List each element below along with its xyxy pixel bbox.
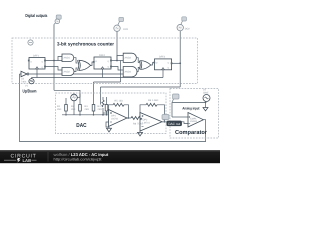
svg-text:DFF1: DFF1 — [33, 55, 40, 58]
svg-text:Comparator: Comparator — [175, 129, 208, 136]
svg-text:1.5kΩ: 1.5kΩ — [152, 99, 159, 102]
svg-text:2kΩ: 2kΩ — [57, 108, 62, 111]
svg-text:wolfson / L23 ADC - AC input: wolfson / L23 ADC - AC input — [54, 152, 109, 157]
svg-text:AND4: AND4 — [125, 71, 132, 74]
svg-text:3-bit synchronous counter: 3-bit synchronous counter — [57, 41, 114, 47]
svg-text:LAB: LAB — [23, 158, 32, 163]
svg-text:AND1: AND1 — [64, 57, 71, 60]
svg-text:2kΩ: 2kΩ — [98, 108, 103, 111]
svg-text:DO1: DO1 — [123, 28, 129, 31]
svg-text:Analog input: Analog input — [182, 106, 200, 110]
svg-text:http://circuitlab.com/c6jvq3t: http://circuitlab.com/c6jvq3t — [54, 158, 102, 162]
svg-text:1kΩ: 1kΩ — [119, 100, 124, 103]
svg-text:Up/Down: Up/Down — [23, 88, 37, 93]
svg-text:2kΩ: 2kΩ — [71, 108, 76, 111]
svg-text:DAC out: DAC out — [168, 122, 180, 126]
svg-text:DFF3: DFF3 — [159, 56, 166, 59]
svg-text:DFF2: DFF2 — [99, 54, 106, 57]
svg-text:LM741: LM741 — [111, 117, 119, 120]
svg-text:DAC: DAC — [76, 123, 86, 129]
svg-text:AND2: AND2 — [64, 71, 71, 74]
svg-text:Digital outputs: Digital outputs — [25, 13, 47, 18]
svg-text:LM741: LM741 — [143, 121, 151, 124]
svg-text:AND3: AND3 — [125, 57, 132, 60]
svg-text:DO2: DO2 — [185, 28, 191, 31]
svg-text:SINE: SINE — [203, 91, 209, 94]
svg-text:LM311: LM311 — [190, 120, 198, 123]
svg-text:7404: 7404 — [21, 80, 27, 83]
svg-text:2kΩ: 2kΩ — [85, 108, 90, 111]
